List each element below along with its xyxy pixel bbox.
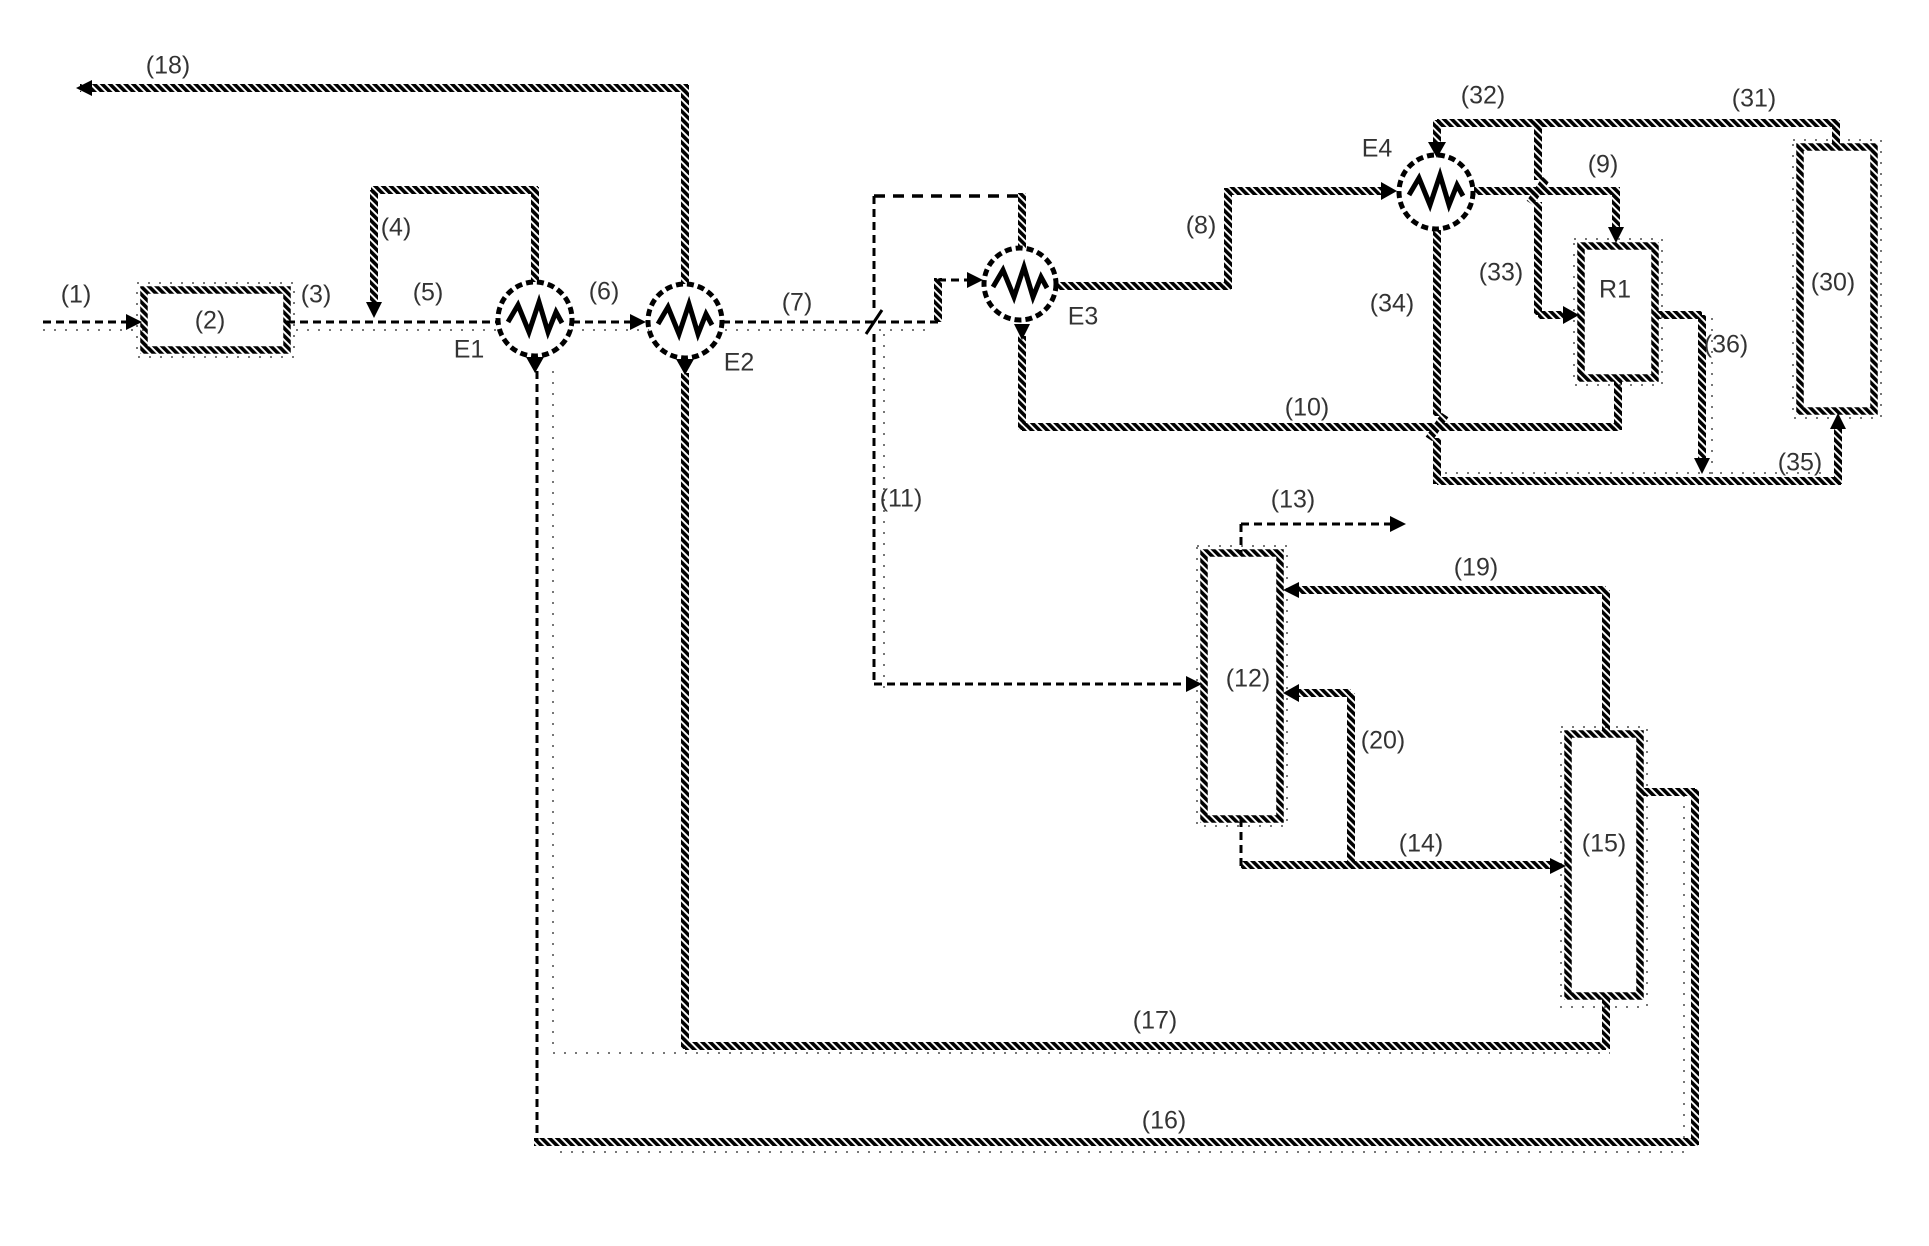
hop of stream (33) over E4 line	[1530, 179, 1546, 203]
vessel column (30)	[1800, 147, 1874, 411]
svg-text:(3): (3)	[301, 281, 332, 309]
arrow into column (12) right lower	[1283, 684, 1299, 702]
hop of stream (11) over main line	[866, 310, 882, 334]
svg-text:R1: R1	[1599, 276, 1631, 304]
svg-text:(18): (18)	[146, 52, 190, 80]
wire stream (8) riser vertical	[1224, 188, 1232, 289]
wire stream (36) vertical	[1698, 315, 1706, 458]
svg-text:(12): (12)	[1226, 665, 1270, 693]
wire step-up vertical before E3	[934, 278, 942, 322]
wire stream (36) horizontal from R1	[1655, 311, 1702, 319]
wire stream (7) E2 to step	[722, 321, 940, 324]
wire stream (20) vertical	[1347, 693, 1355, 868]
ghost outline of reactor R1	[1574, 239, 1662, 385]
vessel column (15)	[1568, 734, 1640, 996]
ghost echo of main process line	[43, 329, 930, 331]
wire stream (11) vertical lower	[873, 334, 876, 684]
arrow E1 bottom outlet	[526, 357, 544, 373]
wire column (30) bottom vertical	[1834, 428, 1842, 484]
svg-text:E2: E2	[724, 349, 755, 377]
wire stream (31)(32) top horizontal	[1437, 119, 1836, 127]
arrow into column (12) left	[1186, 676, 1202, 692]
wire stream (19) vertical into column 15	[1602, 590, 1610, 736]
svg-text:E4: E4	[1362, 135, 1393, 163]
ghost echo of stream (16) line	[560, 1151, 1690, 1153]
wire stream (8) to E4 horizontal	[1228, 187, 1384, 195]
svg-text:(33): (33)	[1479, 259, 1523, 287]
wire E4 outlet to R1 riser	[1474, 191, 1616, 230]
wire stream (17) horizontal	[685, 1042, 1606, 1050]
wire stream (19) horizontal	[1294, 586, 1606, 594]
arrow into box (2)	[126, 314, 142, 330]
ghost outline of column (15)	[1561, 727, 1647, 1007]
wire stream (3)(5) main line	[287, 321, 498, 324]
svg-text:(9): (9)	[1588, 151, 1619, 179]
svg-text:E3: E3	[1068, 303, 1099, 331]
wire loop (4) right vertical into E1 top	[531, 187, 539, 283]
ghost echo of column 15 right line	[1683, 795, 1685, 1140]
svg-text:(13): (13)	[1271, 486, 1315, 514]
svg-text:(14): (14)	[1399, 830, 1443, 858]
svg-text:(19): (19)	[1454, 554, 1498, 582]
vessel column (12)	[1204, 553, 1280, 819]
svg-text:(35): (35)	[1778, 449, 1822, 477]
ghost echo of E1 cooling line	[553, 371, 1610, 1053]
ghost outline of column (30)	[1793, 140, 1881, 418]
svg-text:(7): (7)	[782, 289, 813, 317]
svg-text:(5): (5)	[413, 279, 444, 307]
arrow into column (12) right upper	[1283, 582, 1299, 598]
svg-text:(4): (4)	[381, 214, 412, 242]
svg-text:(30): (30)	[1811, 269, 1855, 297]
wire E1 bottom vertical to stream (16)	[536, 371, 539, 1140]
wire loop (4) top horizontal	[371, 186, 538, 194]
wire stream (6) E1 to E2	[572, 321, 631, 324]
arrow stream (36) down onto (35)	[1694, 458, 1710, 474]
arrow into E3	[967, 272, 983, 288]
wire column 15 right side horizontal	[1640, 788, 1695, 796]
wire stream (33) horizontal into R1	[1538, 311, 1564, 319]
vessel reactor R1	[1581, 246, 1655, 378]
wire stream (11) vertical upper	[873, 196, 876, 310]
wire E3 bypass top horizontal	[874, 194, 1022, 197]
svg-text:(2): (2)	[195, 307, 226, 335]
arrow E2 bottom outlet	[676, 359, 694, 375]
heat exchanger E1	[498, 282, 572, 356]
wire stream (14) horizontal	[1241, 861, 1550, 869]
svg-text:(36): (36)	[1704, 331, 1748, 359]
arrow into E4 top	[1428, 142, 1446, 158]
heat exchanger E3	[984, 248, 1056, 320]
arrow stream (13) outlet	[1390, 516, 1406, 532]
wire E3 top feed vertical	[1018, 193, 1026, 249]
wire R1 bottom vertical	[1614, 378, 1622, 430]
wire stream (13) vertical from column 12	[1240, 524, 1243, 555]
wire stream (10) horizontal	[1022, 423, 1620, 431]
wire step horizontal into E3	[938, 279, 967, 282]
svg-text:(10): (10)	[1285, 394, 1329, 422]
wire column 15 right down vertical	[1691, 789, 1699, 1145]
wire E2 bottom vertical to stream (17)	[681, 373, 689, 1049]
wire E4 top feed vertical	[1433, 120, 1441, 142]
svg-text:(1): (1)	[61, 281, 92, 309]
wire stream (33) vertical upper	[1534, 120, 1542, 180]
wire E2 top vertical to line (18)	[681, 85, 689, 285]
heat exchanger E2	[648, 284, 722, 358]
svg-text:(11): (11)	[880, 485, 923, 513]
svg-text:(16): (16)	[1142, 1107, 1186, 1135]
wire stream (18) recycle line top	[80, 84, 688, 92]
arrow into column (30) bottom	[1830, 413, 1846, 429]
svg-text:(31): (31)	[1732, 85, 1776, 113]
arrow E3 bottom outlet	[1014, 324, 1030, 340]
wire stream (34) E4 down vertical upper	[1433, 230, 1441, 416]
wire column (30) top feed vertical	[1832, 120, 1840, 148]
ghost echo of stream (11) vertical	[883, 334, 885, 690]
svg-text:(34): (34)	[1370, 290, 1414, 318]
ghost echo of stream (35) line	[1445, 472, 1830, 474]
wire stream (11) horizontal into column 12	[874, 683, 1187, 686]
svg-text:(15): (15)	[1582, 830, 1626, 858]
svg-text:(6): (6)	[589, 278, 620, 306]
svg-text:(32): (32)	[1461, 82, 1505, 110]
wire stream (20) horizontal	[1294, 689, 1351, 697]
wire loop (4) left vertical	[370, 190, 378, 302]
heat exchanger E4	[1399, 155, 1473, 229]
wire stream (34) E4 down vertical lower	[1433, 438, 1441, 484]
svg-text:(20): (20)	[1361, 727, 1405, 755]
arrow stream (18) outlet left	[76, 80, 92, 96]
arrow into R1 top	[1608, 227, 1624, 243]
vessel (2) mixer	[144, 290, 287, 350]
wire stream (35) bottom horizontal	[1437, 477, 1841, 485]
svg-text:(8): (8)	[1186, 212, 1217, 240]
hop of stream (34) over stream (10)	[1429, 415, 1445, 439]
wire column 12 bottom vertical	[1240, 819, 1243, 866]
wire stream (8) E3 outlet horizontal	[1056, 282, 1231, 290]
wire stream (13) horizontal	[1241, 523, 1390, 526]
svg-text:E1: E1	[454, 336, 485, 364]
ghost outline of column (12)	[1197, 546, 1287, 826]
ghost outline of mixer box (2)	[137, 283, 294, 357]
ghost echo of stream (36) vertical	[1711, 318, 1713, 475]
wire stream (33) vertical lower	[1534, 202, 1542, 315]
wire column 15 bottom vertical	[1602, 994, 1610, 1049]
arrow into R1 left	[1563, 306, 1579, 324]
arrow into column (15) left	[1550, 858, 1566, 874]
wire stream (16) bottom horizontal	[534, 1138, 1698, 1146]
svg-text:(17): (17)	[1133, 1007, 1177, 1035]
wire E3 bottoms vertical	[1018, 336, 1026, 430]
arrow loop (4) into main line	[366, 302, 382, 318]
arrow into E4	[1381, 182, 1397, 200]
wire stream (1) feed	[43, 321, 128, 324]
arrow into E2	[630, 314, 646, 330]
